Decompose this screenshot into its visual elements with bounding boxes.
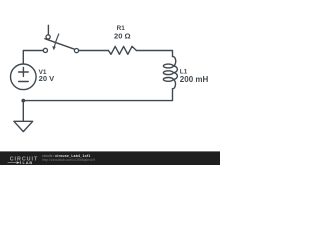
wire: L1 bottom to corner and bottom rail to left [23,89,172,101]
V1 minus sign [19,81,29,83]
resistor R1 zigzag [108,46,136,54]
voltage source V1 circle [10,64,36,90]
wire: switch right terminal to R1 [79,50,109,52]
svg-text:http://circuitlab.com/c/25b8q6: http://circuitlab.com/c/25b8q6m4r9 [42,158,95,162]
footer logo wire line [8,162,17,164]
switch blade [45,39,75,50]
switch SW top throw stub [47,25,49,34]
switch right terminal circle [74,49,78,53]
switch top throw circle [46,35,50,39]
V1 plus sign [19,67,29,76]
junction node dot [21,99,25,103]
footer logo diode symbol [17,161,20,164]
svg-text:20 V: 20 V [39,74,56,83]
inductor L1 turn 2 [163,71,173,75]
switch left terminal circle [43,48,47,52]
inductor L1 arc 2-3 [173,73,177,80]
inductor L1 turn 3 [163,78,173,82]
footer bar [0,151,220,165]
wire: R1 to top-right corner [136,51,172,57]
inductor L1 exit arc [173,79,176,88]
svg-text:20 Ω: 20 Ω [114,32,131,41]
svg-text:LAB: LAB [23,160,34,165]
ground symbol [14,121,33,131]
svg-text:200 mH: 200 mH [180,75,209,84]
switch toggle arrow curve [55,34,59,46]
wire: V1 top to switch left terminal [23,51,43,65]
inductor L1 arc 1-2 [173,66,177,73]
inductor L1 turn 1 [163,64,173,68]
wire: junction down to ground [22,101,24,122]
switch arrow head [52,46,56,50]
inductor L1 entry arc [173,56,176,66]
